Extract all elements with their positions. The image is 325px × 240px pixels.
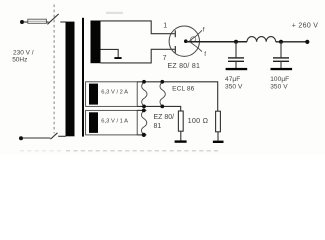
capacitor C1 plates [228,57,244,59]
svg-text:50Hz: 50Hz [12,57,27,64]
capacitor C2 plates [273,57,289,59]
switch S1b blade [51,133,58,139]
wire: HV center tap [101,49,119,57]
heater winding box 6,3V/2A [86,82,138,107]
svg-text:1: 1 [163,23,167,30]
node: mains input terminal top (L) [20,20,24,24]
transformer 6.3V/1A winding bar [89,112,98,133]
node: EZ filament bottom [142,133,146,137]
svg-text:100µF: 100µF [270,76,289,83]
svg-text:EZ 80/: EZ 80/ [154,114,175,121]
tube cathode loop [191,37,196,42]
heater filament ECL86 #2 [160,80,165,108]
svg-text:ECL 86: ECL 86 [172,86,195,93]
svg-text:350 V: 350 V [270,84,288,91]
fuse F1 [28,19,47,23]
tube heater lead f bottom [198,48,202,52]
svg-text:f: f [204,51,206,58]
capacitor C1 bottom lead [235,61,237,68]
switch mechanical link (dashed) [53,5,55,134]
ground: C2 ground bar [271,68,293,70]
wire: 1A bottom rail [137,134,146,136]
resistor R1 100 ohm (left) [178,111,183,131]
switch S1a blade [47,14,58,24]
ground: R2 ground bar [213,141,224,143]
tube heater lead f top [198,30,202,34]
wire: 2A bottom rail to left resistor [137,106,181,111]
wire: bottom terminal to switch [23,137,51,139]
svg-text:+ 260 V: + 260 V [292,22,318,29]
node: filament 1 bottom [142,105,146,109]
scan artifact: bottom dashed row [20,150,64,152]
tube V1 EZ 80/81 envelope [169,26,199,56]
ground: R1 ground bar [175,140,187,142]
wire: fuse to switch [46,21,48,23]
resistor R2 100 ohm (right) [216,111,221,132]
transformer HV secondary winding [91,21,101,64]
wire: 2A top rail to right resistor [137,82,218,111]
wire: switch to primary [60,21,66,23]
wire: switch to primary bottom [58,135,66,137]
svg-text:350 V: 350 V [225,84,243,91]
wire: R2 to ground [217,132,219,141]
capacitor C1 top lead [235,42,237,58]
ground: center tap chassis bar [114,57,121,59]
ground: C1 ground bar [226,68,248,70]
node: filament 2 bottom [160,105,164,109]
capacitor C2 bottom lead [280,61,282,68]
wire: terminal to fuse [24,21,28,23]
node: junction at C2 [279,40,283,44]
svg-text:81: 81 [154,123,162,130]
svg-text:47µF: 47µF [225,76,240,83]
heater winding box 6,3V/1A [86,110,138,134]
wire: HV top to rectifier anode pin 1 [101,21,175,34]
node: +260V output terminal [305,40,309,44]
wire: choke to +260V terminal [276,41,308,43]
heater filament ECL86 #1 [142,80,147,108]
wire: 1A top rail [137,109,146,111]
svg-text:230 V /: 230 V / [13,50,34,57]
svg-text:EZ 80/ 81: EZ 80/ 81 [168,63,201,70]
wire: R1 to ground [180,131,182,140]
transformer T1 primary winding [66,22,75,137]
tube heater filament chevron [189,35,198,48]
node: filament 1 top [142,80,146,84]
transformer 6.3V/2A winding bar [89,84,98,105]
svg-text:100 Ω: 100 Ω [188,116,209,125]
svg-text:f: f [203,26,205,33]
tube anode plate pin 7 [174,46,176,53]
node: cathode junction dot [184,39,188,43]
node: filament 2 top [160,80,164,84]
heater filament EZ80/81 [141,109,146,137]
svg-text:7: 7 [163,55,167,62]
transformer core [82,18,84,137]
node: EZ filament top [142,109,146,113]
node: mains input terminal bottom (N) [19,136,23,140]
wire: HV bottom to rectifier anode pin 7 [101,49,175,63]
wire: B+ rail tube cathode to choke [186,41,247,43]
svg-text:6,3 V / 1 A: 6,3 V / 1 A [101,119,128,125]
node: junction at C1 [234,40,238,44]
capacitor C2 top lead [280,42,282,58]
inductor L1 choke [247,37,276,42]
scan smudge top [106,12,123,14]
tube anode plate pin 1 [174,30,176,37]
svg-text:6,3 V / 2 A: 6,3 V / 2 A [101,89,128,95]
